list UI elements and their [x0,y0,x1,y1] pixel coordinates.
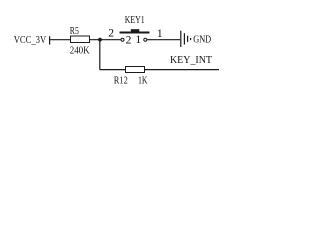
svg-text:240K: 240K [70,44,90,56]
wire KEY1 pin1 to GND [147,39,180,41]
resistor R5 [71,36,90,43]
wire R5 to KEY1 pin2 [90,39,121,41]
pin 2 circle [121,38,124,41]
ground symbol [180,31,191,47]
wire to R12 [100,69,126,71]
switch KEY1 [120,15,150,46]
junction node [98,38,102,42]
button bump [131,29,140,31]
wire R12 to KEY_INT [145,69,219,71]
svg-text:KEY1: KEY1 [125,15,145,26]
power port bar VCC_3V [49,36,50,44]
svg-text:1: 1 [136,34,142,46]
svg-text:2: 2 [108,28,114,40]
pin 1 circle [144,38,147,41]
svg-text:2: 2 [126,34,132,46]
wire VCC to R5 [50,39,71,41]
svg-text:R5: R5 [70,25,79,37]
svg-text:KEY_INT: KEY_INT [170,55,212,66]
actuator bar [120,32,150,34]
svg-text:VCC_3V: VCC_3V [14,35,47,46]
svg-text:1K: 1K [138,75,148,86]
svg-text:1: 1 [157,28,163,40]
svg-text:GND: GND [193,35,211,46]
resistor R12 [126,67,145,73]
svg-text:R12: R12 [114,75,128,86]
wire junction down [99,40,101,70]
